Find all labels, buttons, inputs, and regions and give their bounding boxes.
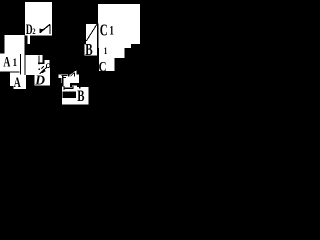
wire node D vertical [39, 56, 40, 65]
terminal circle [46, 64, 50, 68]
diode D2 vertical wire [49, 24, 50, 34]
svg-text:A: A [14, 74, 22, 91]
EF wedge [70, 71, 76, 75]
junction tick [73, 86, 74, 88]
diode D box [34, 64, 50, 86]
svg-text:1: 1 [109, 24, 114, 38]
black notch EF [59, 78, 62, 85]
svg-text:D: D [34, 72, 45, 87]
label F stem [62, 76, 64, 87]
diode D triangle [41, 69, 46, 73]
black tick B box top [79, 87, 81, 89]
capacitor C1 big box [98, 4, 140, 44]
diode D2 triangle [41, 29, 44, 33]
label F top bar [62, 75, 68, 76]
node region halo [25, 55, 42, 63]
junction white notch [72, 86, 77, 88]
junction horizontal [65, 88, 74, 89]
ammeter A1 label box [0, 54, 20, 72]
capacitor C1 plate line [97, 24, 98, 57]
svg-text:A: A [3, 53, 11, 70]
background [0, 0, 150, 110]
label F mid bar [63, 76, 66, 79]
wire node A vertical 1 [20, 54, 21, 75]
circle halo wedge [45, 60, 50, 65]
black notch A box [8, 86, 14, 92]
EF lower left [62, 78, 70, 92]
svg-text:1: 1 [13, 57, 17, 69]
svg-text:C: C [99, 58, 107, 75]
black block in B box [63, 92, 77, 98]
C1 lower region a [99, 48, 125, 58]
label F right serif [68, 74, 69, 76]
svg-text:C: C [100, 21, 108, 40]
EF box [59, 75, 80, 83]
wire diagonal at node E [70, 73, 74, 77]
wire node A vertical 2 [24, 45, 25, 75]
node B bottom box [62, 87, 89, 104]
C1 lower region b [99, 58, 115, 71]
wire stub halo below D2 box [27, 35, 30, 44]
capacitor symbol column [86, 24, 97, 50]
C1 box step [97, 44, 131, 48]
capacitor C1 diagonal wire [86, 24, 97, 41]
diode D plate bar [41, 66, 44, 69]
svg-text:2: 2 [32, 26, 35, 36]
diode D2 diagonal wire [43, 24, 50, 30]
wire D-E halo dashes [38, 64, 40, 72]
node region halo 2 [25, 55, 38, 75]
node B label halo [84, 44, 97, 55]
svg-text:B: B [85, 41, 92, 60]
diode D diagonal wire [40, 67, 47, 73]
junction vertical [63, 86, 64, 90]
halo strip left [5, 35, 25, 53]
svg-text:1: 1 [104, 46, 108, 56]
node A label box [10, 73, 26, 90]
node halo: diode D2 box [25, 2, 52, 35]
capacitor plate at node E [73, 73, 76, 77]
diode D2 plate bar [40, 29, 41, 34]
halo strip 2 [20, 54, 25, 76]
svg-text:B: B [77, 87, 84, 105]
